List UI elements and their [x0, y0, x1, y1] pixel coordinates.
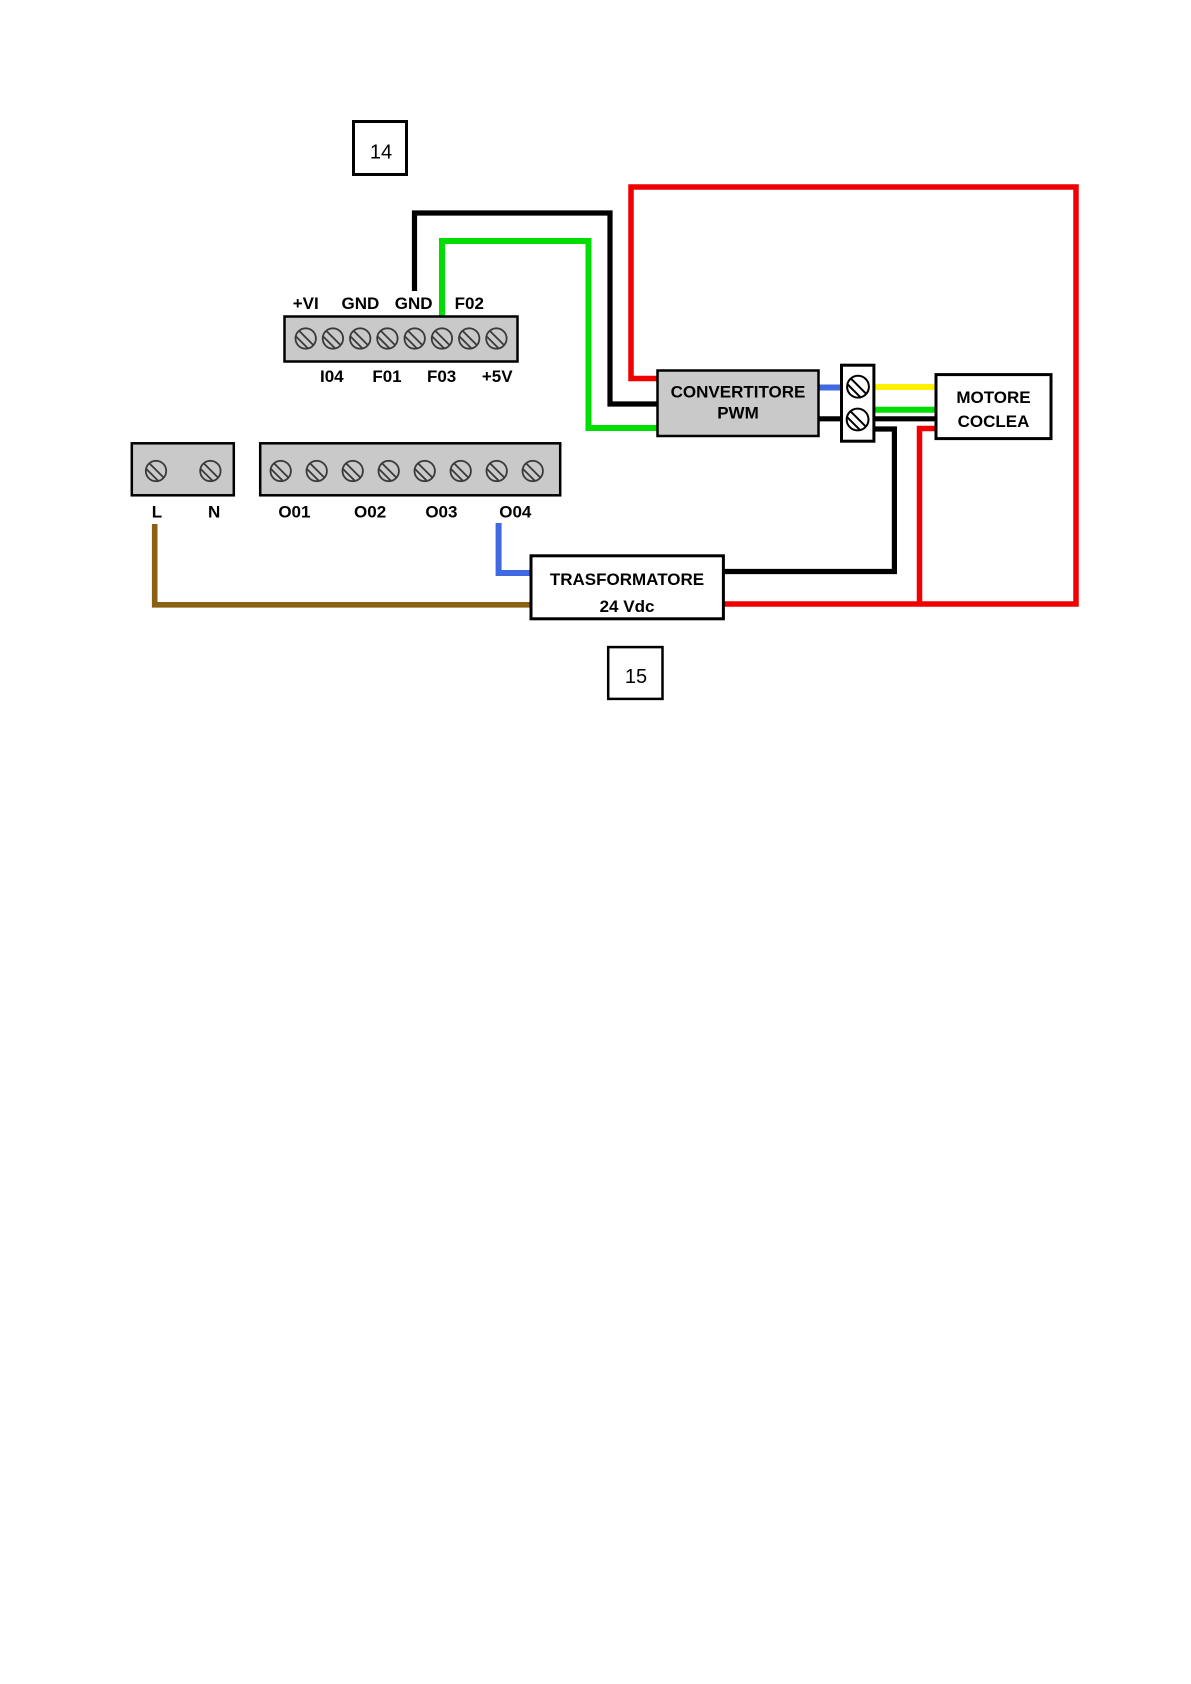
screw TS1-4	[377, 328, 397, 349]
screw TB2-1	[847, 376, 869, 398]
svg-text:F02: F02	[455, 294, 484, 313]
screw TS1-8	[486, 328, 506, 349]
wire green F02-to-PWM	[442, 241, 658, 428]
wire green terminal-block-to-motor	[874, 407, 936, 413]
screw N	[200, 461, 220, 482]
screw TS1-1	[296, 328, 316, 349]
terminal strip outputs (8 screws)	[260, 443, 560, 495]
svg-text:MOTORE: MOTORE	[956, 388, 1030, 407]
screw TS1-5	[405, 328, 425, 349]
screw O-5	[415, 461, 435, 482]
svg-text:L: L	[152, 503, 162, 522]
screw O-8	[523, 461, 543, 482]
screw TS1-7	[459, 328, 479, 349]
wire blue PWM-to-terminal-block	[818, 385, 842, 391]
terminal block TB2 (2 screws)	[842, 365, 874, 441]
wire blue O04-to-transformer	[499, 523, 531, 573]
svg-text:COCLEA: COCLEA	[958, 412, 1030, 431]
converter U1 CONVERTITORE PWM	[658, 371, 819, 437]
svg-text:CONVERTITORE: CONVERTITORE	[671, 383, 806, 402]
screw O-6	[451, 461, 471, 482]
node 14 callout box	[354, 122, 407, 175]
screw TB2-2	[847, 409, 869, 431]
wire red main loop (PWM supply loop from transformer)	[631, 187, 1076, 604]
terminal strip TS1 (top, 8 screws)	[285, 317, 518, 362]
wire black PWM-to-terminal-block	[818, 416, 842, 421]
svg-text:N: N	[208, 503, 220, 522]
svg-text:PWM: PWM	[717, 404, 759, 423]
svg-text:+VI: +VI	[293, 294, 319, 313]
svg-text:15: 15	[625, 666, 647, 688]
screw TS1-2	[323, 328, 343, 349]
wire yellow terminal-block-to-motor	[874, 384, 936, 390]
wire red branch to motor	[920, 429, 937, 602]
svg-text:I04: I04	[320, 367, 344, 386]
svg-text:O02: O02	[354, 503, 386, 522]
wire black terminal-block-to-motor	[874, 416, 936, 421]
screw TS1-3	[350, 328, 370, 349]
screw TS1-6	[432, 328, 452, 349]
screw L	[146, 461, 166, 482]
svg-text:GND: GND	[342, 294, 380, 313]
wire black terminal-block-to-transformer	[724, 429, 894, 572]
svg-text:F03: F03	[427, 367, 456, 386]
svg-text:14: 14	[370, 142, 392, 164]
wire black GND-to-PWM	[415, 213, 659, 404]
screw O-4	[379, 461, 399, 482]
wire brown L-to-transformer	[155, 524, 531, 605]
screw O-1	[271, 461, 291, 482]
svg-text:TRASFORMATORE: TRASFORMATORE	[550, 570, 704, 589]
svg-text:24 Vdc: 24 Vdc	[600, 597, 655, 616]
terminal block L-N	[132, 443, 234, 495]
screw O-2	[307, 461, 327, 482]
screw O-7	[487, 461, 507, 482]
svg-text:O04: O04	[499, 503, 532, 522]
motor M1 MOTORE COCLEA	[936, 375, 1051, 439]
svg-text:GND: GND	[395, 294, 433, 313]
svg-text:O03: O03	[425, 503, 457, 522]
svg-text:F01: F01	[372, 367, 401, 386]
transformer T1 TRASFORMATORE 24Vdc	[531, 556, 723, 619]
screw O-3	[343, 461, 363, 482]
svg-text:+5V: +5V	[482, 367, 513, 386]
node 15 callout box	[608, 647, 662, 699]
svg-text:O01: O01	[278, 503, 310, 522]
